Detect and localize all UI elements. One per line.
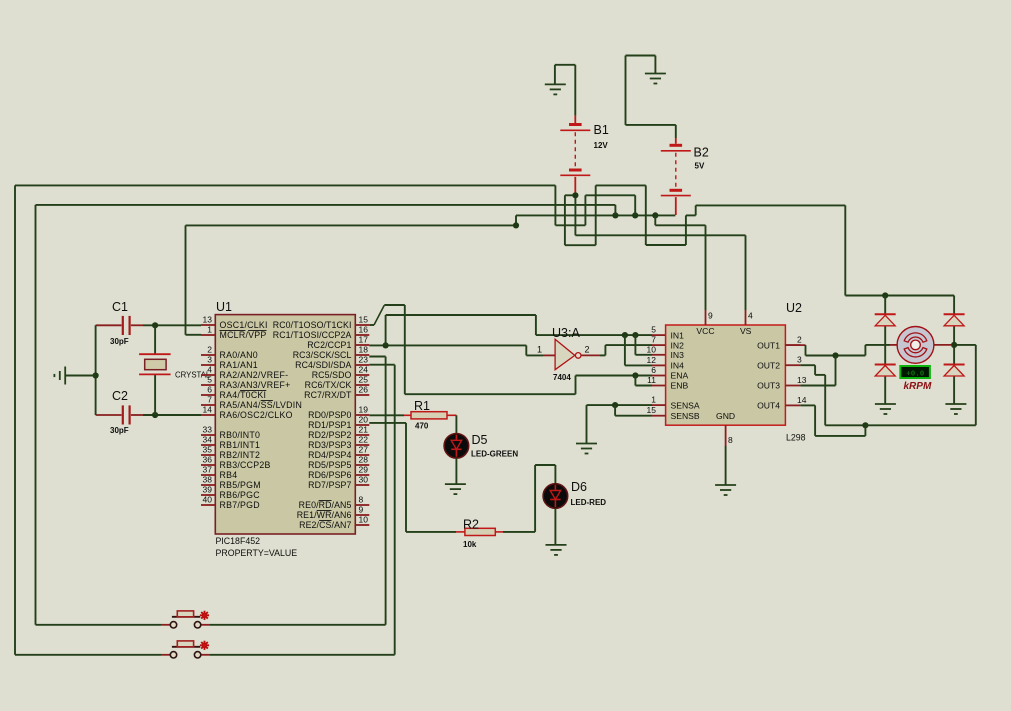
svg-text:2: 2	[585, 345, 590, 355]
wire B1 top to ground	[574, 65, 576, 116]
crystal X1	[139, 354, 171, 374]
svg-text:MCLR/VPP: MCLR/VPP	[220, 330, 267, 340]
svg-text:GND: GND	[716, 411, 735, 421]
node bus dot3	[652, 212, 658, 218]
svg-text:IN1: IN1	[671, 330, 685, 340]
svg-text:U2: U2	[786, 301, 802, 315]
svg-text:OUT1: OUT1	[757, 340, 780, 350]
pin 2 U2 right	[785, 344, 800, 346]
node B1 bottom junction	[572, 192, 578, 198]
svg-text:RE2/CS/AN7: RE2/CS/AN7	[299, 520, 351, 530]
pin 35 U1 left	[201, 454, 215, 456]
push button SW2	[161, 654, 170, 656]
svg-text:9: 9	[359, 505, 364, 515]
wire dotB to IN3	[634, 335, 636, 355]
svg-text:5: 5	[207, 375, 212, 385]
svg-text:L298: L298	[786, 433, 806, 443]
svg-text:28: 28	[359, 455, 369, 465]
svg-text:R2: R2	[463, 518, 479, 532]
svg-text:16: 16	[359, 325, 369, 335]
pin 30 U1 right	[355, 484, 369, 486]
pin 4 VS top	[745, 310, 747, 325]
pin 1 U1 left	[201, 334, 215, 336]
wire left diode column	[884, 296, 886, 315]
svg-text:22: 22	[359, 435, 369, 445]
op-amp U3:A inverter 7404	[543, 354, 555, 356]
pin 18 U1 right	[355, 354, 369, 356]
pin 13 U1 left	[201, 324, 215, 326]
node pin17 junction	[383, 342, 389, 348]
pin 28 U1 right	[355, 464, 369, 466]
pin 38 U1 left	[201, 484, 215, 486]
wire 5V bus	[516, 214, 675, 216]
svg-text:10k: 10k	[463, 540, 477, 549]
svg-text:+0.0: +0.0	[906, 370, 925, 378]
battery B2	[661, 145, 691, 195]
pin 14 U2 right	[785, 404, 800, 406]
svg-text:RC0/T1OSO/T1CKI: RC0/T1OSO/T1CKI	[273, 320, 352, 330]
pin 33 U1 left	[201, 434, 215, 436]
ground L298	[715, 485, 736, 495]
wire D6 to ground	[554, 508, 556, 545]
node cap-gnd	[93, 372, 99, 378]
wire B1 neg to VS rail	[574, 195, 576, 235]
svg-text:RA0/AN0: RA0/AN0	[220, 350, 258, 360]
svg-text:RD4/PSP4: RD4/PSP4	[308, 450, 351, 460]
svg-text:ENB: ENB	[671, 381, 689, 391]
svg-text:RB2/INT2: RB2/INT2	[220, 450, 261, 460]
svg-text:RD5/PSP5: RD5/PSP5	[308, 460, 351, 470]
LED D6 LED-RED	[543, 484, 568, 509]
ground D6	[546, 545, 567, 555]
svg-text:RA3/AN3/VREF+: RA3/AN3/VREF+	[220, 380, 291, 390]
svg-text:RD2/PSP2: RD2/PSP2	[308, 430, 351, 440]
svg-text:1: 1	[207, 325, 212, 335]
wire RC2 pin17 net	[369, 344, 526, 346]
svg-text:SENSB: SENSB	[671, 411, 700, 421]
svg-text:RE1/WR/AN6: RE1/WR/AN6	[297, 510, 352, 520]
ground B2	[645, 74, 666, 84]
svg-text:23: 23	[359, 355, 369, 365]
node motor top dot	[882, 292, 888, 298]
pin 34 U1 left	[201, 444, 215, 446]
wire dotA to IN4	[624, 335, 626, 365]
svg-text:RB6/PGC: RB6/PGC	[220, 490, 261, 500]
svg-text:RE0/RD/AN5: RE0/RD/AN5	[299, 500, 352, 510]
pin 40 U1 left	[201, 504, 215, 506]
svg-text:RB7/PGD: RB7/PGD	[220, 500, 260, 510]
pin 4 U1 left	[201, 374, 215, 376]
svg-text:10: 10	[647, 344, 657, 354]
diode D1 (top-left)	[875, 313, 896, 315]
node SENS dot	[612, 402, 618, 408]
motor rpm display	[900, 366, 930, 378]
node C2-xtal	[152, 412, 158, 418]
svg-text:36: 36	[203, 455, 213, 465]
svg-text:35: 35	[203, 445, 213, 455]
pin 27 U1 right	[355, 454, 369, 456]
svg-text:8: 8	[728, 435, 733, 445]
svg-text:IN4: IN4	[671, 361, 685, 371]
svg-text:PROPERTY=VALUE: PROPERTY=VALUE	[216, 548, 298, 558]
wire R2 to D6	[503, 531, 535, 533]
PIC U1 body	[215, 315, 355, 534]
pin 20 U1 right	[355, 424, 369, 426]
ground D5	[445, 484, 466, 494]
svg-text:ENA: ENA	[671, 371, 689, 381]
svg-text:RD1/PSP1: RD1/PSP1	[308, 420, 351, 430]
svg-text:RC2/CCP1: RC2/CCP1	[307, 340, 351, 350]
svg-text:RB1/INT1: RB1/INT1	[220, 440, 261, 450]
svg-text:C2: C2	[112, 389, 128, 403]
wire SENS dot to SENSB	[614, 405, 616, 416]
pin 9 VCC top	[705, 310, 707, 325]
node C1-xtal	[152, 322, 158, 328]
svg-text:RA6/OSC2/CLKO: RA6/OSC2/CLKO	[220, 410, 293, 420]
pin 9 U1 right	[355, 514, 369, 516]
pin 2 U1 left	[201, 354, 215, 356]
svg-text:RC5/SDO: RC5/SDO	[312, 370, 352, 380]
svg-text:29: 29	[359, 465, 369, 475]
svg-text:27: 27	[359, 445, 369, 455]
svg-text:B2: B2	[694, 146, 709, 160]
svg-text:14: 14	[797, 395, 807, 405]
pin 21 U1 right	[355, 434, 369, 436]
svg-text:kRPM: kRPM	[904, 381, 932, 392]
svg-text:7: 7	[651, 335, 656, 345]
L298 U2 body	[666, 325, 786, 425]
ground crystal (left)	[54, 367, 65, 385]
svg-text:13: 13	[203, 315, 213, 325]
wire button1 left feed	[36, 624, 162, 626]
wire C1-C2 left link	[95, 325, 97, 415]
ground B1	[545, 84, 566, 94]
svg-text:13: 13	[797, 375, 807, 385]
svg-text:OUT3: OUT3	[757, 381, 780, 391]
capacitor C2	[123, 405, 130, 424]
svg-text:RB4: RB4	[220, 470, 238, 480]
svg-text:4: 4	[748, 311, 753, 321]
pin 3 U2 right	[785, 364, 800, 366]
svg-text:RD3/PSP3: RD3/PSP3	[308, 440, 351, 450]
svg-text:LED-GREEN: LED-GREEN	[471, 450, 518, 459]
wire C1 to OSC1	[143, 324, 201, 326]
pin 3 U1 left	[201, 364, 215, 366]
svg-text:RA5/AN4/SS/LVDIN: RA5/AN4/SS/LVDIN	[220, 400, 303, 410]
svg-text:PIC18F452: PIC18F452	[216, 536, 261, 546]
wire pin17 upper path to IN1	[385, 315, 387, 345]
svg-text:470: 470	[415, 422, 429, 431]
pin 36 U1 left	[201, 464, 215, 466]
wire net B second rail	[36, 204, 616, 206]
svg-text:20: 20	[359, 415, 369, 425]
pin 24 U1 right	[355, 374, 369, 376]
diode D2 (bottom-left)	[875, 364, 896, 366]
svg-text:15: 15	[359, 315, 369, 325]
wire button2 to RC4 pin23	[210, 654, 395, 656]
svg-text:40: 40	[203, 495, 213, 505]
svg-text:30pF: 30pF	[110, 337, 129, 346]
pin 8 U1 right	[355, 504, 369, 506]
node bus dot2	[632, 212, 638, 218]
pin 25 U1 right	[355, 384, 369, 386]
svg-text:34: 34	[203, 435, 213, 445]
svg-text:RB3/CCP2B: RB3/CCP2B	[220, 460, 271, 470]
resistor R1 470	[369, 414, 404, 416]
node motor right dot	[951, 342, 957, 348]
wire 12V rail to motor top	[845, 295, 954, 297]
wire B1 dot left leg weave to motor rail	[565, 194, 576, 196]
node OUT1/OUT3 dot	[832, 352, 838, 358]
node jog dot	[515, 215, 517, 225]
svg-text:RA1/AN1: RA1/AN1	[220, 360, 258, 370]
svg-text:39: 39	[203, 485, 213, 495]
wire OUT1 to motor left	[785, 344, 805, 346]
svg-text:6: 6	[207, 385, 212, 395]
svg-text:30: 30	[359, 475, 369, 485]
pin 16 U1 right	[355, 334, 369, 336]
wire C2 to OSC2	[143, 414, 201, 416]
svg-text:RC4/SDI/SDA: RC4/SDI/SDA	[295, 360, 351, 370]
ground motor-right	[945, 404, 966, 414]
wire B2 top to ground	[675, 125, 677, 138]
svg-text:38: 38	[203, 475, 213, 485]
svg-text:RC1/T1OSI/CCP2A: RC1/T1OSI/CCP2A	[273, 330, 352, 340]
svg-text:10: 10	[359, 515, 369, 525]
resistor R2 10k	[456, 531, 465, 533]
svg-text:OSC1/CLKI: OSC1/CLKI	[220, 320, 268, 330]
pin 39 U1 left	[201, 494, 215, 496]
diode D4 (bottom-right)	[944, 364, 965, 366]
wire U3A out to IN2	[600, 354, 605, 356]
wire OUT4 loop	[800, 404, 815, 406]
svg-text:C1: C1	[112, 300, 128, 314]
wire button1 to RC3 pin18	[210, 624, 386, 626]
svg-text:OUT2: OUT2	[757, 360, 780, 370]
svg-text:IN2: IN2	[671, 340, 685, 350]
wire ENA dot to ENB	[634, 376, 636, 386]
wire gnd stub	[65, 375, 95, 377]
pin 17 U1 right	[355, 344, 369, 346]
pin 29 U1 right	[355, 474, 369, 476]
pin 15 U1 right	[355, 324, 369, 326]
svg-text:IN3: IN3	[671, 350, 685, 360]
svg-text:RD6/PSP6: RD6/PSP6	[308, 470, 351, 480]
wire right diode column	[953, 296, 955, 315]
svg-text:14: 14	[203, 405, 213, 415]
motor M1	[897, 327, 934, 364]
svg-text:RD7/PSP7: RD7/PSP7	[308, 480, 351, 490]
wire motor right loop	[865, 424, 975, 426]
svg-text:VS: VS	[740, 326, 752, 336]
wire GND pin to ground	[725, 446, 727, 485]
pin 22 U1 right	[355, 444, 369, 446]
svg-text:U3:A: U3:A	[552, 326, 580, 340]
wire xtal verticals	[154, 325, 156, 354]
wire button2 left feed	[15, 654, 161, 656]
node IN1 dotA	[622, 332, 628, 338]
push button SW1	[161, 624, 170, 626]
battery B1	[560, 125, 590, 176]
svg-text:12: 12	[647, 355, 657, 365]
svg-text:RB0/INT0: RB0/INT0	[220, 430, 261, 440]
svg-text:21: 21	[359, 425, 369, 435]
svg-text:RD0/PSP0: RD0/PSP0	[308, 410, 351, 420]
svg-text:5V: 5V	[695, 162, 705, 171]
svg-text:18: 18	[359, 345, 369, 355]
pin 10 U1 right	[355, 524, 369, 526]
wire OUT3 to dot	[800, 385, 835, 387]
svg-text:4: 4	[207, 365, 212, 375]
svg-text:2: 2	[207, 345, 212, 355]
wire dot3 to VCC	[654, 215, 656, 225]
svg-text:RC7/RX/DT: RC7/RX/DT	[304, 390, 352, 400]
svg-text:19: 19	[359, 405, 369, 415]
svg-text:RC6/TX/CK: RC6/TX/CK	[305, 380, 352, 390]
svg-text:D6: D6	[571, 480, 587, 494]
svg-text:24: 24	[359, 365, 369, 375]
svg-text:1: 1	[537, 345, 542, 355]
svg-text:33: 33	[203, 425, 213, 435]
svg-text:26: 26	[359, 385, 369, 395]
svg-text:U1: U1	[216, 300, 232, 314]
pin 8 GND bottom	[725, 425, 727, 446]
ground motor-left	[875, 404, 896, 414]
svg-text:17: 17	[359, 335, 369, 345]
wire rail B drop to dot1	[614, 205, 616, 216]
pin 23 U1 right	[355, 364, 369, 366]
svg-text:RB5/PGM: RB5/PGM	[220, 480, 261, 490]
diode D3 (top-right)	[944, 313, 965, 315]
svg-text:RC3/SCK/SCL: RC3/SCK/SCL	[293, 350, 352, 360]
svg-text:8: 8	[359, 495, 364, 505]
node bus dot1	[612, 212, 618, 218]
pin 14 U1 left	[201, 414, 215, 416]
wire D5 to ground	[455, 458, 457, 484]
node IN1 dotB	[632, 332, 638, 338]
svg-text:2: 2	[797, 335, 802, 345]
svg-text:3: 3	[797, 355, 802, 365]
svg-text:1: 1	[651, 395, 656, 405]
svg-text:3: 3	[207, 355, 212, 365]
wire SENS to ground	[587, 404, 616, 406]
svg-text:25: 25	[359, 375, 369, 385]
pin 6 U1 left	[201, 394, 215, 396]
svg-text:9: 9	[708, 311, 713, 321]
wire MCLR to bus	[186, 224, 517, 226]
pin 13 U2 right	[785, 385, 800, 387]
capacitor C1	[123, 316, 130, 335]
pin 19 U1 right	[355, 414, 369, 416]
pin 5 U1 left	[201, 384, 215, 386]
svg-text:VCC: VCC	[696, 326, 714, 336]
svg-text:RA2/AN2/VREF-: RA2/AN2/VREF-	[220, 370, 289, 380]
wire RC0 pin15 to ENA/ENB	[369, 324, 374, 326]
pin 37 U1 left	[201, 474, 215, 476]
svg-text:B1: B1	[594, 123, 609, 137]
svg-text:LED-RED: LED-RED	[571, 498, 607, 507]
svg-text:RA4/T0CKI: RA4/T0CKI	[220, 390, 267, 400]
svg-text:6: 6	[651, 365, 656, 375]
wire net A top-left rail	[15, 184, 555, 186]
svg-text:R1: R1	[414, 399, 430, 413]
svg-text:D5: D5	[472, 433, 488, 447]
svg-text:7: 7	[207, 395, 212, 405]
svg-text:7404: 7404	[553, 373, 571, 382]
LED D5 LED-GREEN	[444, 434, 469, 459]
svg-text:37: 37	[203, 465, 213, 475]
svg-text:SENSA: SENSA	[671, 400, 700, 410]
node ENA dot	[632, 372, 638, 378]
svg-text:11: 11	[647, 375, 656, 385]
svg-text:OUT4: OUT4	[757, 401, 780, 411]
svg-text:5: 5	[651, 325, 656, 335]
ground SENS	[576, 444, 597, 454]
pin 7 U1 left	[201, 404, 215, 406]
wire R1 to D5	[455, 415, 457, 433]
svg-text:15: 15	[647, 405, 657, 415]
svg-text:12V: 12V	[594, 141, 609, 150]
wire rail A weave down	[554, 185, 556, 225]
pin 26 U1 right	[355, 394, 369, 396]
wire RD1 pin20 to R2	[369, 422, 406, 424]
node OUT2/OUT4 dot	[862, 422, 868, 428]
wire OUT2 loop	[800, 364, 815, 366]
svg-text:30pF: 30pF	[110, 426, 129, 435]
